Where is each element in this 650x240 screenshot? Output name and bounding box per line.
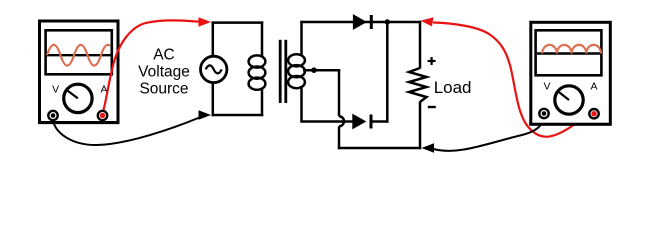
meter M1 screen xyxy=(46,30,112,74)
meter M2 dial pointer xyxy=(558,91,570,100)
meter M2 black terminal xyxy=(539,109,548,118)
wire: primary loop top xyxy=(212,21,264,24)
svg-text:AC: AC xyxy=(153,47,175,64)
inductor L2 transformer secondary winding xyxy=(288,54,305,88)
AC source V1 sine symbol xyxy=(206,65,222,73)
red test lead from M1 red terminal to AC source top xyxy=(104,20,200,110)
wire: center tap horizontal xyxy=(303,69,340,72)
wire hop over secondary-bottom wire xyxy=(339,116,344,126)
wire: primary loop right branch bottom stub xyxy=(261,88,264,116)
AC source V1 circle xyxy=(201,56,227,82)
meter M1 screen zero line xyxy=(46,54,111,56)
wire: secondary bottom stub xyxy=(300,87,303,123)
black test lead from M1 black terminal to AC source bottom xyxy=(53,118,200,146)
svg-text:V: V xyxy=(543,80,550,92)
node junction dot at top xyxy=(385,19,390,24)
meter M1 (left multimeter) xyxy=(38,21,120,123)
svg-text:Load: Load xyxy=(434,78,472,97)
svg-text:A: A xyxy=(590,80,597,92)
wire: primary loop left branch bottom xyxy=(212,83,215,117)
meter M2 case xyxy=(531,22,611,124)
red arrowhead at AC source top xyxy=(199,17,212,27)
wire: D2 cathode to vertical xyxy=(371,120,389,123)
wire: center tap vertical lower part xyxy=(338,126,341,149)
svg-text:Source: Source xyxy=(139,81,188,98)
wire: bottom rail xyxy=(338,147,421,150)
diode D2 (bottom) xyxy=(353,115,366,129)
transformer T1 core xyxy=(279,40,282,103)
meter M1 case xyxy=(40,21,119,123)
black test lead from bottom rail to M2 black terminal xyxy=(432,118,545,151)
wire: primary loop left branch top xyxy=(212,21,215,56)
wire: right rail top xyxy=(419,21,422,69)
black arrowhead at AC source bottom xyxy=(199,110,212,120)
wire: secondary bottom horizontal to D2 anode xyxy=(302,120,354,123)
resistor R-load zigzag xyxy=(409,68,427,102)
meter M2 screen xyxy=(536,30,602,75)
red arrowhead at top node rail xyxy=(421,17,434,26)
black arrowhead at bottom rail xyxy=(422,143,435,153)
meter M1 dial xyxy=(64,84,92,112)
meter M2 rectified humps trace xyxy=(542,45,601,54)
wire: primary loop right branch top stub xyxy=(261,21,264,57)
wire: primary loop bottom xyxy=(212,114,264,117)
meter M2 red terminal xyxy=(589,109,598,118)
meter M1 red terminal xyxy=(98,111,107,120)
meter M1 black terminal xyxy=(48,111,57,120)
wire: secondary top rail to right rail xyxy=(300,21,421,24)
meter M2 dial xyxy=(555,86,583,114)
polarity + label xyxy=(428,57,436,65)
red test lead from top node to M2 red terminal xyxy=(433,23,592,137)
meter M1 sine trace xyxy=(47,45,110,66)
wire: right rail bottom xyxy=(419,102,422,150)
svg-text:V: V xyxy=(52,84,59,96)
meter M2 screen zero line xyxy=(537,52,601,54)
node: secondary center tap dot xyxy=(311,67,317,73)
polarity - label xyxy=(428,106,436,108)
meter M2 (right multimeter) xyxy=(529,22,611,124)
svg-text:Voltage: Voltage xyxy=(138,64,190,81)
wire: from top node down to D2 cathode xyxy=(386,22,389,123)
wire: secondary top stub xyxy=(300,21,303,56)
wire: center tap vertical upper part xyxy=(338,69,341,116)
diode D1 (top) xyxy=(353,15,366,29)
inductor L1 transformer primary winding xyxy=(249,55,266,89)
meter M1 dial pointer xyxy=(66,90,78,99)
